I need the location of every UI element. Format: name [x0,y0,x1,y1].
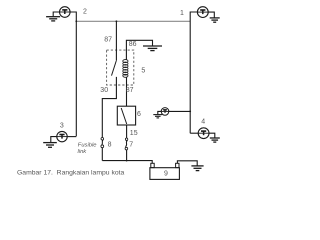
battery 9 negative post [176,163,179,167]
svg-text:9: 9 [164,170,168,177]
relay R (dashed enclosure) [107,50,134,85]
indicator lamp (at switch 6) [161,108,169,116]
wire: coil bottom (pin 87) down to switch 6 [126,77,128,106]
svg-text:1: 1 [180,10,184,17]
wire: bottom bus to battery positive post [102,161,152,164]
lamp 2 [60,7,71,18]
ground (lamp 1) [210,18,220,22]
ground (relay coil) [143,46,162,51]
wire: top supply bus [76,20,190,22]
wire: lamp 1 to ground [208,12,214,17]
wire: left vertical from lamp 2 down to lamp 3 [70,12,76,136]
svg-text:Fusible: Fusible [78,143,97,149]
node: bus / relay 87 junction [116,20,118,22]
wire: switch 6 pin 15 down to fusible link 7 [126,125,128,161]
svg-text:3: 3 [60,122,64,129]
svg-text:87: 87 [126,87,134,94]
wire: right vertical from lamp 1 down to lamp 4 [190,12,197,133]
wire: lamp 3 to left vertical [67,136,76,138]
fusible link 7 [125,138,128,150]
relay contact blade [112,61,117,76]
svg-text:Gambar 17. Rangkaian lampu ko: Gambar 17. Rangkaian lampu kota [17,169,125,176]
fusible link 8 [101,138,104,148]
battery 9 body [150,168,180,180]
svg-text:15: 15 [130,130,138,137]
relay coil [123,60,128,78]
svg-text:4: 4 [201,119,205,126]
wire: battery negative to ground [177,161,197,166]
svg-text:6: 6 [137,111,141,118]
svg-text:7: 7 [129,142,133,149]
wire: lamp 2 to ground [53,12,59,16]
wire: right vertical to lamp 4 [190,132,198,134]
wire: indicator lamp to ground [158,111,161,114]
svg-text:5: 5 [141,67,145,74]
svg-text:86: 86 [129,41,137,48]
lamp 1 [197,7,208,18]
ground (lamp 2) [46,17,60,21]
wire: lamp 3 to ground [51,137,57,143]
wire: indicator lamp to right vertical [169,110,190,112]
switch 6 (box) [117,106,135,125]
ground (lamp 4) [210,138,220,142]
wire: coil top to ground [126,40,152,59]
ground (indicator lamp) [153,115,162,118]
svg-text:87: 87 [104,37,112,44]
lamp 3 [57,131,67,141]
battery 9 positive post [151,163,154,167]
svg-text:link: link [78,149,88,155]
wire: relay pin 30 lead down-left to fusible link 8 [102,77,116,161]
svg-text:2: 2 [83,8,87,15]
node: bottom bus / fusible link 7 junction [126,160,128,162]
wire: bus to relay pin 87 [115,21,117,61]
node: right vertical / indicator lamp junction [189,111,191,113]
svg-text:30: 30 [100,87,108,94]
ground (lamp 3) [43,143,57,148]
node: bus / left vertical junction [75,20,77,22]
lamp 4 [198,128,209,139]
switch 6 blade [121,108,127,124]
ground (battery) [191,166,203,171]
wire: lamp 4 to ground [209,133,215,137]
svg-text:8: 8 [108,142,112,149]
